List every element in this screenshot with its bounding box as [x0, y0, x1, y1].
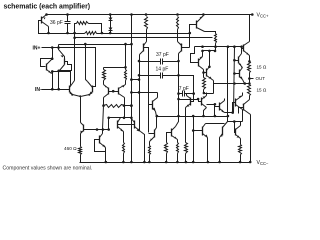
junction Q26 emitter [231, 111, 234, 114]
transistor Q9 [181, 44, 183, 52]
svg-text:14 pF: 14 pF [156, 66, 169, 72]
svg-text:37 pF: 37 pF [156, 52, 169, 58]
transistor Q20 [154, 130, 156, 138]
wire R3a stem [103, 68, 105, 70]
wire x228 vertical [227, 47, 229, 122]
wire R7 down [146, 30, 148, 42]
wire Q12 base [191, 94, 194, 102]
wire y92.4 [132, 92, 158, 94]
resistor R8 vert [177, 17, 179, 30]
wire cluster lower [53, 72, 71, 86]
wire Q15b coll join [242, 67, 243, 68]
svg-text:460 Ω: 460 Ω [64, 146, 77, 151]
wire Q5 coll [205, 32, 216, 34]
wire R6 to rail [80, 155, 82, 163]
svg-text:15 Ω: 15 Ω [257, 87, 267, 92]
wire tail [73, 95, 90, 97]
wire Q20 coll up [156, 117, 158, 128]
resistor R6 460 [79, 147, 82, 155]
wire x215 vertical [214, 105, 216, 117]
junction Q11 base [202, 71, 205, 74]
wire Q3 base staircase [59, 62, 72, 71]
wire R17 to rail [240, 155, 242, 163]
wire Q15 base [235, 60, 239, 62]
wire Q5 base down [189, 34, 191, 48]
wire R4 to bus [125, 105, 132, 107]
wire Q13 base [242, 47, 244, 49]
resistor R7 vert [145, 17, 148, 30]
transistor Q10 [198, 59, 200, 67]
wire Q2 emitter join [52, 72, 53, 74]
wire IN+ lead [42, 48, 96, 87]
wire Q27 emit stub [242, 93, 244, 96]
junctions y51 [201, 50, 216, 53]
wire R16 to rail [185, 154, 187, 163]
wire R13 to rail [166, 154, 168, 163]
junction C4 right [192, 92, 195, 95]
resistor R1 horizontal [77, 22, 89, 25]
junction Q15b emitter [244, 82, 247, 85]
wire Q6 e stem [103, 81, 105, 85]
wire x108.7 up [108, 118, 110, 130]
transistor Q13 [243, 45, 245, 52]
junctions Q9 coll [177, 60, 180, 101]
wire x125.5 up [125, 45, 127, 68]
wire y93 [204, 93, 214, 95]
wire C stem [58, 45, 60, 48]
capacitor C4 7 pF [179, 91, 194, 97]
transistor Q1 [41, 17, 43, 24]
wire Q21 base [167, 133, 172, 143]
transistor Q7 [118, 88, 120, 95]
wire Q12 coll [186, 94, 188, 96]
resistor R2 horizontal [85, 32, 97, 35]
wire Q7 e stem [125, 81, 127, 85]
transistor Q22a [202, 127, 204, 136]
wire Q18 emitter down [123, 132, 125, 143]
wire VCC+ rail [46, 14, 253, 16]
transistor Q11 [206, 69, 208, 77]
junctions node C [84, 43, 133, 46]
wire R1 left stem [75, 24, 77, 34]
wire y51 [203, 50, 216, 52]
wire node A right [111, 33, 190, 35]
wire Q4b collector up [86, 45, 88, 82]
svg-text:7 pF: 7 pF [179, 86, 189, 92]
wire Q21 coll up [176, 117, 179, 127]
junction node B [73, 37, 76, 40]
capacitor C3 14 pF [140, 73, 179, 79]
wire Q10 emitter up [202, 51, 204, 57]
wire Q27 coll down [242, 110, 244, 122]
wire Q1 base loop [39, 21, 49, 34]
wire Q15 coll up [241, 47, 243, 54]
wire Q15b base [235, 73, 240, 75]
capacitor C1 36 pF [65, 15, 71, 34]
junctions bus x131 [130, 104, 133, 119]
junctions R4 [102, 104, 125, 107]
capacitor C2 37 pF [140, 59, 179, 65]
junction y93 [203, 92, 206, 95]
wire mirror top tie [109, 117, 132, 119]
junction driver out [248, 82, 251, 85]
junction IN+ b [57, 46, 60, 49]
wire x215 top link [207, 104, 215, 106]
wire R10 top [203, 70, 205, 71]
junctions y79.6 [130, 78, 140, 81]
wire Q9 coll down [178, 54, 180, 117]
wire Q23 coll up [240, 122, 242, 126]
transistor Q15b [239, 70, 241, 78]
transistor Q14 [243, 104, 245, 111]
wire Q1 collector down [48, 27, 50, 34]
svg-text:15 Ω: 15 Ω [257, 64, 267, 69]
resistor R9 vert [215, 34, 217, 44]
wire Q16 coll [80, 122, 82, 124]
svg-text:IN+: IN+ [33, 45, 41, 51]
resistor R13 vert [165, 143, 168, 154]
resistor R3b [125, 70, 127, 81]
wire R10 down [203, 90, 205, 94]
wire bias bus [84, 129, 109, 131]
arrow Q16 [81, 131, 83, 134]
wire Q14 emitter up [249, 96, 251, 100]
wire Q17 coll up [102, 130, 104, 134]
transistor Q24 [152, 101, 154, 110]
wire x234 column [234, 47, 235, 113]
junction OUT [248, 77, 251, 80]
wire Q10 base loop [191, 47, 199, 63]
junctions cluster lower [51, 70, 60, 73]
wire R8 down [177, 30, 179, 42]
wire Q4a collector up [74, 34, 76, 81]
wire Q25 base [199, 100, 202, 102]
resistor R11 15 [248, 62, 251, 73]
wire res pair top [104, 67, 126, 69]
wire Q24 emitter down [156, 112, 157, 117]
junctions y92.4 [130, 91, 140, 94]
wire Q8 base column [144, 48, 149, 133]
resistor R14 vert [177, 143, 179, 154]
wire Q20 base [149, 133, 155, 135]
junction y99 right [197, 98, 200, 101]
transistor Q5 [196, 21, 198, 29]
junctions node A [47, 32, 191, 35]
junction res pair right [124, 66, 127, 69]
wire Q26 emitter [225, 112, 233, 114]
transistor Q8 [143, 44, 145, 52]
wire y121.5 [228, 121, 243, 123]
wire Q27 base [233, 103, 236, 113]
wire R3b stem [125, 68, 127, 70]
svg-text:VCC−: VCC− [257, 160, 270, 166]
transistor Q25 [201, 98, 203, 106]
resistor R10 vert [203, 78, 206, 90]
svg-text:36 pF: 36 pF [50, 20, 63, 26]
wire R10 stem [203, 71, 205, 78]
transistor Q18 [117, 121, 119, 129]
resistor R15 vert [149, 146, 151, 155]
wire R14 to rail [177, 154, 179, 163]
wire VCC+ drop [249, 15, 251, 42]
wire Q3 emitter diag [59, 48, 65, 59]
transistor Q22b [222, 127, 224, 136]
resistor R12 15 [248, 85, 251, 96]
wire node C [59, 44, 132, 46]
wire Q6 coll down [103, 98, 105, 106]
wire Q11 base [204, 72, 207, 74]
svg-text:OUT: OUT [256, 76, 266, 81]
wire Q22 e2 down [219, 138, 221, 163]
wire Q21 emitter down [177, 140, 179, 143]
wire Q2 base loop [41, 59, 53, 67]
wire Q8 coll down [139, 55, 141, 131]
wire R11 to OUT [249, 73, 251, 85]
wire Q12 emitter [185, 108, 187, 113]
wire x124 down [124, 106, 126, 118]
wire node B [75, 34, 213, 38]
wire Q16 base [83, 129, 85, 130]
wire Q20 emitter down [149, 142, 151, 146]
junctions node E [201, 45, 243, 48]
transistor Q27 [235, 99, 237, 107]
wire R4 left down [103, 106, 104, 130]
wire Q14 base [239, 108, 244, 114]
junction y121.5 [233, 120, 236, 123]
wire node E [195, 46, 242, 48]
wire Q5 base [190, 25, 197, 34]
diode D2 [109, 25, 113, 34]
wire x193 vertical [193, 117, 195, 163]
wire Q17 base loop [95, 140, 106, 152]
wire tail down [80, 97, 82, 123]
junctions tail [71, 94, 90, 98]
wire driver [214, 83, 250, 85]
resistor R4 horizontal [104, 105, 125, 108]
transistor Q15 [238, 57, 240, 64]
wire R16 stem [185, 113, 187, 143]
wire Q25 coll stub [206, 93, 208, 96]
transistor Q26 [219, 103, 221, 111]
svg-text:VCC+: VCC+ [257, 13, 270, 19]
wire R9 to E [215, 44, 217, 47]
transistor Q19 [134, 121, 136, 129]
wire Q11 emitter down [213, 81, 215, 94]
wire Q19 emitter down [141, 132, 145, 163]
junction base tie [112, 90, 115, 93]
wire y51 up [215, 47, 217, 51]
wire VCC- rail [80, 162, 251, 164]
wire Q6Q7 base tie [109, 91, 119, 93]
transistor Q2 [46, 64, 48, 71]
wire Q9 base [182, 47, 190, 49]
junction Q11 coll [208, 66, 211, 69]
junction Q22 base [192, 129, 195, 132]
junctions x234 column [233, 59, 236, 85]
junctions bias bus [96, 128, 110, 131]
junctions VCC+ rail [45, 13, 253, 16]
wire y79.6 link [132, 79, 140, 81]
junctions mirror tie [107, 117, 125, 120]
wire IN- lead [42, 89, 70, 91]
transistor Q3 [64, 59, 66, 65]
wire Q25 emit stub [204, 108, 207, 117]
transistor Q4b [92, 86, 94, 93]
transistor Q17 [99, 136, 101, 144]
wire y99 [179, 99, 199, 101]
junctions node F [156, 115, 230, 118]
transistor Q6 [108, 88, 110, 95]
wire node A mid [97, 33, 111, 35]
transistor Q12 [190, 98, 192, 106]
wire Q13 emitter down [249, 56, 251, 62]
junction IN+ a [51, 46, 54, 49]
wire Q17 emitter down [105, 148, 107, 163]
wire drop x58 [58, 71, 60, 90]
wire node F [156, 116, 228, 118]
diode D1 [109, 15, 113, 25]
wire Q15b emitter [243, 80, 245, 84]
wire R15 to rail [149, 155, 151, 163]
wire bus x131 lower [131, 45, 133, 163]
wire Q14 coll down [250, 115, 252, 163]
resistor R3a [103, 70, 106, 81]
transistor Q23 [235, 129, 237, 136]
wire Q16 emitter [80, 134, 82, 147]
wire Q2 stem [52, 48, 54, 59]
junctions IN- node [51, 88, 60, 91]
svg-text:Component values shown are nom: Component values shown are nominal. [3, 165, 93, 171]
junction Q2 top [51, 57, 54, 60]
resistor R16 vert [185, 143, 188, 154]
svg-text:IN−: IN− [35, 87, 43, 93]
resistor R17 vert [239, 145, 242, 155]
wire Q26 base [215, 106, 220, 108]
wire R5 to rail [123, 154, 125, 163]
wire Q24 coll up [157, 93, 159, 98]
wire R1 right corner [89, 24, 102, 34]
transistor Q16 [83, 125, 85, 132]
transistor Q3 arrow [61, 56, 64, 58]
wire Q11 coll up [209, 51, 211, 67]
wire drop x52 [52, 72, 54, 90]
junction R4 bus [130, 104, 133, 107]
wire Q23 emitter down [240, 139, 242, 145]
wire Q26 coll stub [224, 99, 226, 101]
wire Q22 tie [206, 123, 225, 125]
wire Q15 emitter down [241, 67, 243, 68]
wire OUT tick [250, 78, 254, 80]
wire Q24 base [149, 104, 153, 106]
junctions VCC- rail [105, 161, 252, 164]
wire Q7 coll down [124, 98, 126, 106]
wire node A left [49, 33, 85, 35]
wire Q22 base [194, 130, 203, 132]
wire Q22 e1 down [207, 138, 209, 163]
wire Q18Q19 base tie [118, 124, 135, 126]
resistor R5 mirror [123, 143, 125, 154]
transistor Q4a [69, 86, 71, 93]
transistor Q21 [171, 129, 173, 137]
junction Q25 emitter [202, 115, 205, 118]
junction R11 top [248, 60, 251, 63]
wire bus x131 upper [131, 15, 133, 45]
junctions x215 [214, 103, 217, 117]
wire Q23 base up [235, 122, 236, 133]
wire C4 loop [179, 76, 194, 94]
junctions Q8 coll [138, 60, 141, 77]
svg-text:schematic (each amplifier): schematic (each amplifier) [4, 3, 91, 10]
junction Q3 node [57, 70, 60, 73]
